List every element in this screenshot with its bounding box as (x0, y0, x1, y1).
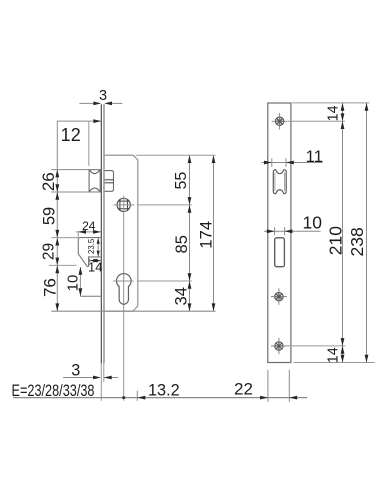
follower chord bottom (118, 208, 129, 210)
svg-text:3: 3 (71, 362, 80, 380)
cylinder profile side view (78, 238, 101, 267)
arrow 238 top (365, 103, 369, 111)
arrow 14t bottom (341, 113, 345, 121)
arrow 14t top (341, 103, 345, 111)
cylinder centerline horizontal (113, 280, 133, 282)
svg-text:14: 14 (88, 260, 102, 275)
dim column 238 (366, 103, 368, 363)
dim 10 column (79, 267, 81, 296)
arrow 85 top (188, 205, 192, 213)
svg-text:14: 14 (325, 105, 341, 121)
arrow 26 top (55, 170, 59, 178)
svg-text:59: 59 (41, 207, 59, 225)
dim 11 arrow right (286, 161, 294, 165)
arrow 238 bottom (365, 355, 369, 363)
arrow 14b top (341, 346, 345, 354)
roller cutout inner side left (274, 173, 276, 192)
baseline (13, 397, 307, 399)
svg-text:12: 12 (61, 125, 81, 145)
dim 10r line (264, 230, 321, 232)
dim 14 line (90, 260, 102, 262)
dim 12 line (57, 120, 101, 122)
left dim column (56, 121, 58, 311)
dim 3b leader left (63, 377, 93, 379)
dim column 55-85-34 (189, 155, 191, 311)
dim 3 top leader right (111, 102, 122, 104)
dim 24 arrow left (78, 230, 86, 234)
line bottom of 10 (80, 295, 101, 297)
screw hole bottom (271, 338, 287, 354)
dim 22 ext left (267, 370, 269, 402)
arrow 10 bottom (79, 288, 83, 296)
svg-text:3: 3 (99, 88, 107, 104)
follower chord left (119, 199, 121, 210)
svg-text:29: 29 (40, 243, 57, 260)
svg-text:22: 22 (234, 380, 253, 399)
dim 3 top arrow left (93, 102, 101, 106)
follower chord top (118, 200, 129, 202)
screw bottom extension line (285, 345, 345, 347)
dim 14 arrow left (90, 259, 98, 263)
arrow 23.5 bottom (97, 251, 100, 257)
svg-text:238: 238 (347, 227, 367, 256)
lock case outline (105, 155, 138, 311)
svg-text:E=23/28/33/38: E=23/28/33/38 (12, 383, 95, 401)
case bottom and 76 extension line (51, 310, 215, 312)
dim 23.5 column (97, 238, 99, 256)
euro cylinder keyhole (117, 274, 132, 305)
arrow 14b bottom (341, 355, 345, 363)
plate outline (268, 103, 291, 363)
node 13.2 left (122, 396, 125, 399)
plate top extension (292, 102, 369, 104)
dim 3b leader right (104, 377, 118, 379)
svg-text:14: 14 (326, 347, 342, 363)
follower centerline horizontal (114, 204, 135, 206)
screw top extension line (288, 120, 345, 122)
dim 22 ext right (288, 370, 290, 402)
tick 59-29 left part (51, 237, 78, 239)
arrow 55 bottom (188, 197, 192, 205)
roller arc bottom (90, 188, 100, 191)
roller cutout (273, 170, 286, 194)
roller latch block (89, 170, 100, 192)
svg-text:85: 85 (173, 235, 191, 253)
ext line 24 left (77, 231, 79, 237)
cylinder slot (275, 238, 285, 267)
extension line latch tip (88, 121, 90, 166)
arrow 59 top (55, 192, 59, 200)
case top extension line (136, 154, 216, 156)
tick 29-76 (49, 264, 77, 266)
latch housing inner line 1 (105, 179, 114, 181)
roller cutout inner side right (284, 173, 286, 192)
arrow 85 bottom (188, 273, 192, 281)
dim 22 arrow left (260, 396, 268, 400)
dim column 14-210 (342, 103, 344, 363)
arrow 29 bottom (55, 258, 59, 266)
arrow 174 top (212, 155, 216, 163)
faceplate front line (100, 104, 102, 363)
screw hole middle (271, 288, 287, 304)
dim 3 top arrow right (104, 102, 112, 106)
dim 14 tick (89, 259, 91, 263)
dim 10r arrow left (267, 229, 275, 233)
dim 24 arrow right (93, 230, 101, 234)
faceplate ext line right (103, 363, 105, 382)
arrow 59 bottom (55, 230, 59, 238)
arrow 76 bottom (55, 303, 59, 311)
dim 22 arrow right (289, 396, 297, 400)
svg-text:10: 10 (64, 275, 81, 292)
dim 24 line (76, 231, 101, 233)
svg-text:174: 174 (196, 221, 215, 249)
svg-text:34: 34 (172, 287, 190, 305)
arrow 76 top (55, 265, 59, 273)
dim 13.2 arrow (138, 396, 146, 400)
arrow 23.5 top (97, 238, 100, 244)
ext line 13.2 right (136, 391, 138, 401)
vertical centerline axis (123, 196, 125, 401)
arrow 174 bottom (212, 303, 216, 311)
arrow 10 top (79, 267, 83, 275)
arrow 210 bottom (341, 338, 345, 346)
dim 12 arrow right (93, 119, 101, 123)
plate bottom extension (294, 362, 375, 364)
svg-text:23.5: 23.5 (87, 238, 96, 254)
dim 3b arrow left (93, 376, 101, 380)
arrow 34 top (188, 281, 192, 289)
dim 3 top leader left (79, 102, 94, 104)
arrow 34 bottom (188, 303, 192, 311)
svg-text:55: 55 (173, 172, 190, 190)
latch bottom line with ticks (51, 191, 100, 193)
arrow 210 top (341, 121, 345, 129)
svg-text:210: 210 (325, 226, 345, 255)
dim 11 tick left (271, 158, 273, 166)
faceplate ext line left (100, 363, 102, 400)
arrow 29 top (55, 238, 59, 246)
svg-text:11: 11 (305, 147, 323, 166)
roller arc top (90, 170, 100, 173)
dim 11 line (262, 162, 323, 164)
dim 3b arrow right (104, 376, 112, 380)
dim 11 arrow left (264, 161, 272, 165)
arrow 55 top (188, 155, 192, 163)
dim 11 tick right (285, 158, 287, 166)
svg-text:10: 10 (302, 212, 322, 232)
svg-text:26: 26 (39, 172, 58, 191)
latch housing inner line 2 (105, 182, 114, 184)
svg-text:13.2: 13.2 (148, 382, 180, 400)
faceplate back line (103, 104, 105, 363)
follower extension to dim (137, 204, 192, 206)
dim column 174 (213, 155, 215, 311)
screw hole top (272, 113, 288, 129)
dim 14 arrow right (93, 259, 101, 263)
follower circle (117, 198, 130, 211)
cylinder extension to dim (137, 280, 192, 282)
svg-text:24: 24 (82, 219, 96, 233)
latch housing (105, 171, 114, 192)
svg-text:76: 76 (40, 278, 59, 297)
dim 10r tick left (274, 227, 276, 235)
dim 10r arrow right (285, 229, 293, 233)
dim 10r tick right (284, 227, 286, 235)
arrow 26 bottom (55, 184, 59, 192)
follower chord right (127, 199, 129, 210)
latch top line with ticks (51, 169, 100, 171)
